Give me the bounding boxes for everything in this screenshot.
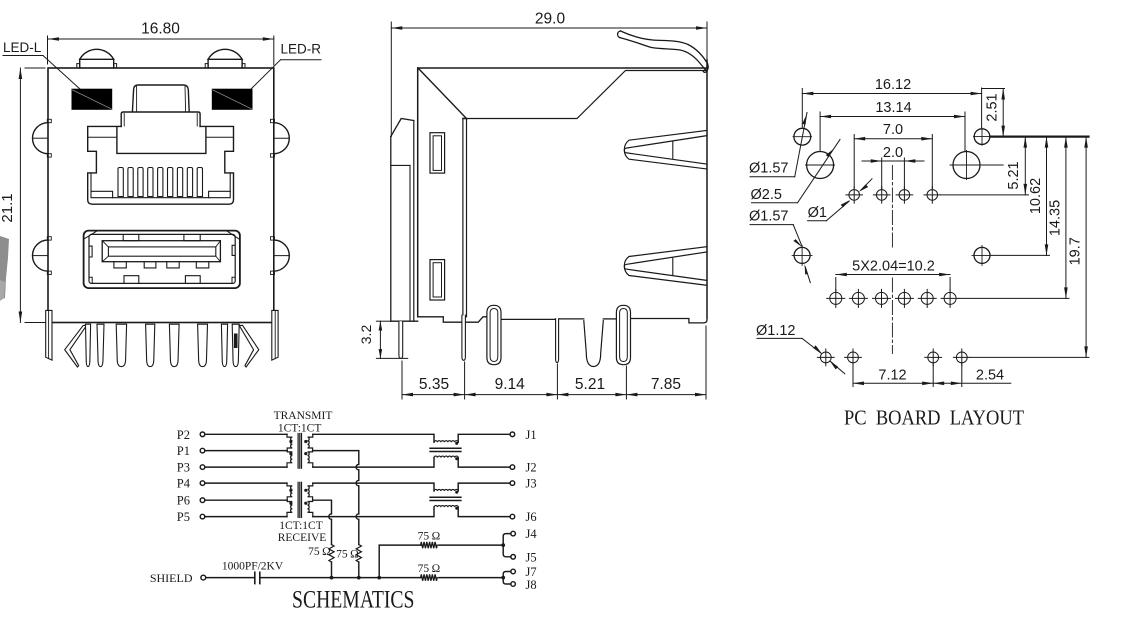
terminal SHIELD (201, 575, 206, 580)
svg-text:P2: P2 (177, 428, 190, 442)
leg chevron left (65, 325, 87, 367)
terminal P3 (200, 465, 205, 470)
side body top face (418, 67, 707, 69)
T2 polarity dots primary (289, 489, 292, 492)
terminal P1 (200, 448, 205, 453)
side body main edges (417, 68, 419, 317)
pad row 2 (6 pads, 5x2.04) (827, 289, 959, 307)
USB bottom tabs (124, 276, 139, 284)
hole big right 2.5 (953, 152, 980, 179)
terminal J3 (510, 481, 515, 486)
dimension 10.62 (vertical) (990, 137, 1050, 256)
dimension 7.0 (854, 135, 932, 189)
dimension 2.0 (arrows outside) (862, 158, 924, 189)
choke CH1 bottom winding (434, 456, 458, 458)
USB tongue (102, 241, 220, 262)
hole mid-right 1.57 (974, 247, 990, 263)
mounting flange left (46, 310, 52, 360)
transformer T2 secondary winding (308, 483, 313, 516)
svg-text:14.35: 14.35 (1048, 200, 1064, 236)
junction J4/J5 bracket (501, 543, 505, 547)
pad row 1 (4 pads dia 1) (846, 187, 941, 204)
svg-text:2.0: 2.0 (883, 145, 903, 161)
blade pin (584, 321, 604, 367)
leg chevron right (239, 325, 259, 367)
dimension 21.1 (19, 68, 46, 323)
svg-text:Ø1.57: Ø1.57 (749, 209, 789, 225)
RJ45 cavity inner back wall (117, 127, 206, 153)
resistor 75ohm (receive tap, vertical) (329, 545, 334, 563)
receive center-tap wire (313, 500, 332, 544)
dimension 2.54 (933, 364, 1011, 387)
svg-text:75 Ω: 75 Ω (308, 546, 331, 558)
gray artifact strip at left edge (0, 236, 9, 300)
grounding tab curved strip (621, 31, 708, 64)
side ear top-left (33, 123, 48, 154)
svg-text:RECEIVE: RECEIVE (278, 532, 327, 544)
svg-text:J3: J3 (526, 477, 537, 491)
terminal J8 (511, 582, 516, 587)
svg-text:P1: P1 (177, 444, 190, 458)
svg-text:SHIELD: SHIELD (150, 571, 193, 585)
svg-text:16.80: 16.80 (141, 21, 180, 38)
svg-text:75 Ω: 75 Ω (418, 531, 441, 543)
svg-text:2.51: 2.51 (985, 93, 1001, 121)
svg-text:1000PF/2KV: 1000PF/2KV (222, 561, 284, 573)
transformer T1 core (297, 434, 299, 469)
dimension 7.12 (853, 364, 933, 387)
svg-text:J7: J7 (526, 565, 537, 579)
vent slot lower (430, 260, 445, 300)
svg-text:5X2.04=10.2: 5X2.04=10.2 (852, 259, 935, 275)
side ear bottom-left (33, 240, 49, 271)
wire resistor to J7/J8 (439, 577, 503, 579)
hole big left 2.5 (807, 152, 834, 179)
hole mid-left 1.57 (794, 247, 810, 263)
dimension 13.14 (820, 112, 965, 151)
dimension 16.12 (802, 88, 981, 128)
junction at receive tap (330, 576, 334, 580)
svg-text:SCHEMATICS: SCHEMATICS (292, 587, 415, 614)
svg-text:21.1: 21.1 (0, 193, 16, 222)
dimension 16.80 (48, 36, 274, 65)
hairpin pin 1 (487, 305, 501, 364)
svg-text:Ø1: Ø1 (808, 205, 827, 221)
svg-text:75 Ω: 75 Ω (336, 549, 359, 561)
wire P5 to T2 (205, 516, 287, 518)
EMI finger upper (624, 130, 707, 169)
resistor 75ohm (transmit tap, vertical) (356, 545, 361, 563)
shield bus wire (260, 577, 420, 579)
svg-text:5.21: 5.21 (575, 376, 605, 393)
wire P2 to T1 (205, 433, 287, 435)
T1 polarity dots secondary (304, 440, 307, 443)
svg-text:TRANSMIT: TRANSMIT (274, 410, 333, 422)
terminal J6 (510, 514, 515, 519)
svg-text:J2: J2 (526, 461, 537, 475)
reference line right (991, 136, 1089, 138)
svg-text:P4: P4 (177, 477, 191, 491)
terminal J5 (511, 555, 516, 560)
CH2 polarity dot bottom (455, 507, 458, 510)
svg-text:2.54: 2.54 (976, 368, 1004, 384)
svg-text:9.14: 9.14 (495, 376, 526, 393)
front view shield body outline (48, 68, 274, 323)
CH2 polarity dot top (455, 491, 458, 494)
pad row 3 (4 pads dia 1.12) (817, 349, 970, 366)
flap pin (399, 321, 403, 358)
T2 polarity dots secondary (304, 489, 307, 492)
J4/J5 branch riser (379, 545, 420, 578)
shield wire left (206, 577, 255, 579)
T1 polarity dots primary (289, 440, 292, 443)
svg-text:1CT:1CT: 1CT:1CT (278, 423, 322, 435)
svg-text:29.0: 29.0 (535, 11, 566, 28)
wire T2 sec bottom to CH2 (313, 507, 434, 516)
LED dome left (80, 49, 114, 59)
dimension 2.51 (vertical) (982, 89, 1005, 137)
svg-text:J5: J5 (526, 550, 537, 564)
EMI finger lower (624, 247, 707, 286)
svg-text:LED-L: LED-L (3, 40, 42, 55)
choke CH2 core (430, 496, 461, 498)
dimension 29.0 (391, 22, 707, 137)
LED window right (black) (212, 89, 253, 110)
RJ45 contact comb (9 teeth) (118, 168, 203, 197)
choke CH2 bottom winding (434, 506, 458, 508)
dimension 14.35 (vertical) (959, 137, 1069, 299)
choke CH2 top winding (434, 489, 458, 491)
junction at transmit tap (357, 576, 361, 580)
dimension 19.7 (vertical) (970, 137, 1089, 358)
svg-text:LED-R: LED-R (281, 42, 322, 57)
svg-text:Ø2.5: Ø2.5 (751, 187, 782, 203)
USB contact tabs under tongue (114, 262, 126, 268)
CH1 polarity dot bottom (455, 457, 458, 460)
side body bottom profile (418, 317, 487, 322)
svg-text:J4: J4 (526, 527, 538, 541)
J4/J5 bracket (503, 534, 511, 557)
svg-text:P3: P3 (177, 460, 190, 474)
wire CH1 top to J1 (458, 434, 510, 442)
LED dome right (208, 49, 242, 59)
capacitor 1000PF/2KV (254, 572, 256, 583)
terminal P6 (200, 498, 205, 503)
svg-text:7.85: 7.85 (651, 376, 681, 393)
wire P3 to T1 (205, 466, 287, 468)
transmit center-tap wire (313, 451, 359, 545)
transformer T2 primary winding (287, 483, 292, 516)
wire P6 to T2 (205, 499, 287, 501)
LED window left (black) (72, 89, 113, 110)
svg-text:10.62: 10.62 (1028, 178, 1044, 214)
bottom pin thin 1 (462, 315, 466, 360)
RJ45 latch step (121, 112, 200, 126)
svg-text:16.12: 16.12 (875, 77, 911, 93)
wire CH2 top to J3 (458, 483, 510, 491)
leg pins (86, 324, 240, 366)
resistor 75ohm (J4/J5, horizontal) (421, 542, 438, 548)
terminal P2 (200, 432, 205, 437)
svg-text:J8: J8 (526, 578, 537, 592)
bottom dimension chain (402, 326, 706, 399)
svg-text:P6: P6 (177, 494, 190, 508)
svg-text:3.2: 3.2 (358, 325, 374, 345)
dimension 5.21 (vertical) (941, 137, 1029, 195)
wire T1 sec bottom to CH1 (313, 458, 434, 468)
wire T2 sec top to choke CH2 (313, 483, 434, 491)
svg-text:7.0: 7.0 (883, 122, 903, 138)
bottom pin thin 2 (556, 319, 559, 363)
transformer T1 secondary winding (308, 434, 313, 467)
svg-text:J1: J1 (526, 428, 537, 442)
junction J7/J8 bracket (501, 576, 505, 580)
svg-text:PC BOARD LAYOUT: PC BOARD LAYOUT (844, 406, 1024, 430)
svg-text:5.21: 5.21 (1006, 161, 1022, 189)
RJ45 cavity outline (88, 126, 234, 204)
side ear top-right (274, 123, 289, 154)
wire T1 sec top to choke CH1 (313, 434, 434, 442)
side ear bottom-right (274, 240, 290, 271)
USB side tabs (89, 246, 92, 257)
svg-text:1CT:1CT: 1CT:1CT (279, 520, 323, 532)
svg-text:19.7: 19.7 (1068, 237, 1084, 265)
terminal P5 (200, 514, 205, 519)
RJ45 latch tab (132, 85, 189, 112)
transformer T2 core (297, 482, 299, 517)
svg-text:7.12: 7.12 (878, 368, 906, 384)
choke CH1 top winding (434, 441, 458, 443)
hole top-left 1.57 (794, 128, 811, 145)
svg-text:P5: P5 (177, 510, 190, 524)
terminal J7 (511, 569, 516, 574)
svg-text:13.14: 13.14 (875, 100, 911, 116)
terminal J4 (511, 531, 516, 536)
mounting flange right (272, 310, 278, 360)
J7/J8 bracket (503, 572, 511, 585)
USB top tabs (123, 235, 139, 241)
wire P1 to T1 (205, 450, 287, 452)
junction at J4 branch (377, 576, 381, 580)
vent slot upper (430, 133, 445, 173)
hairpin pin 2 (616, 305, 630, 364)
board centerline (891, 166, 893, 251)
resistor 75ohm (J7/J8, horizontal on shield bus) (421, 574, 438, 580)
svg-text:75 Ω: 75 Ω (418, 563, 441, 575)
transformer T1 primary winding (287, 434, 292, 467)
dimension 3.2 (376, 321, 407, 358)
terminal J2 (510, 465, 515, 470)
svg-text:5.35: 5.35 (419, 376, 449, 393)
wire P4 to T2 (205, 482, 287, 484)
RJ45 inner bottom ledges (91, 173, 230, 198)
USB receptacle outer shell (84, 231, 240, 289)
svg-text:Ø1.57: Ø1.57 (749, 161, 789, 177)
CH1 polarity dot top (455, 442, 458, 445)
wire resistor to J4/J5 (439, 544, 503, 546)
hole top-right 1.57 (974, 129, 990, 145)
terminal J1 (510, 432, 515, 437)
terminal P4 (200, 481, 205, 486)
choke CH1 core (430, 447, 461, 449)
wire CH1 bottom to J2 (458, 458, 510, 468)
svg-text:Ø1.12: Ø1.12 (756, 323, 796, 339)
wire CH2 bottom to J6 (458, 507, 510, 516)
svg-text:J6: J6 (526, 510, 537, 524)
shield side flap (391, 119, 414, 137)
